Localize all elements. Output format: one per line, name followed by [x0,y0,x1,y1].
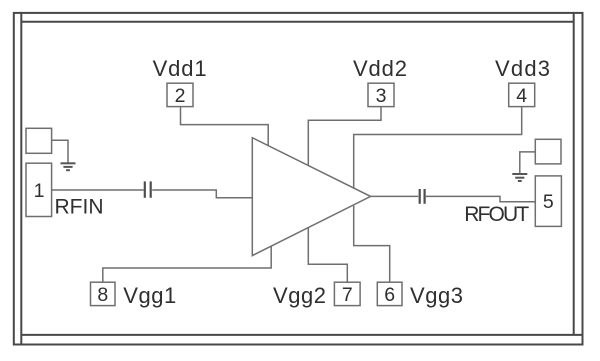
svg-text:1: 1 [34,180,45,202]
wire Vgg1 pin 8 to amplifier bottom edge [103,246,271,282]
capacitor C2 (output DC block) [420,189,425,204]
svg-text:4: 4 [516,85,527,107]
svg-text:6: 6 [384,284,395,306]
wire Vdd3 pin 4 to amplifier top edge [354,107,522,189]
pin box 2 [167,83,193,107]
wire Vdd1 pin 2 to amplifier top edge [181,107,269,147]
pin box 5 (RFOUT) [535,176,561,227]
pad box (input ground pad) [26,128,52,153]
wire Vgg2 pin 7 to amplifier bottom edge [308,228,347,282]
wire capacitor C2 to RFOUT pin 5 [426,196,536,201]
wire input pad to ground [52,140,68,163]
svg-text:Vgg3: Vgg3 [410,283,463,308]
pin box 3 [368,83,394,107]
pin box 7 [334,282,360,306]
wire Vdd2 pin 3 to amplifier top edge [308,107,381,166]
svg-text:5: 5 [543,191,554,213]
op-amp U1 (amplifier triangle) [252,138,370,256]
wire RFIN to capacitor C1 [52,189,144,191]
svg-text:Vdd1: Vdd1 [153,56,207,81]
pin box 8 [91,282,116,306]
wire amplifier output to capacitor C2 [371,195,419,197]
wire capacitor C1 to amplifier input [152,190,252,198]
capacitor C1 (input DC block) [145,181,151,197]
svg-text:2: 2 [175,85,186,107]
svg-text:Vgg2: Vgg2 [273,283,326,308]
svg-text:3: 3 [376,85,387,107]
wire Vgg3 pin 6 to amplifier bottom edge [354,206,390,283]
pin box 4 [509,83,535,107]
ground (input side) [61,163,76,170]
svg-text:RFIN: RFIN [55,195,104,218]
ground (output side) [512,174,527,181]
pin box 6 [377,282,402,306]
svg-text:Vgg1: Vgg1 [123,283,176,308]
svg-text:Vdd2: Vdd2 [353,56,407,81]
pin box 1 (RFIN) [26,163,52,216]
svg-text:7: 7 [342,284,353,306]
svg-text:RFOUT: RFOUT [464,203,529,226]
pad box (output ground pad) [535,139,561,164]
svg-text:Vdd3: Vdd3 [495,56,550,81]
svg-text:8: 8 [97,284,108,306]
wire output pad to ground [520,152,536,174]
